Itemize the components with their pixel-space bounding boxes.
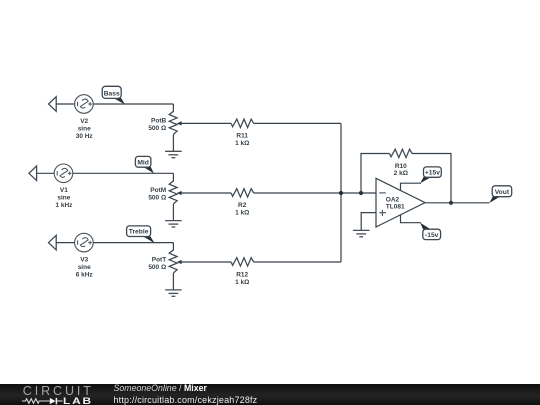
svg-text:Vout: Vout — [495, 189, 510, 196]
node (output junction) — [449, 201, 453, 205]
svg-text:+15v: +15v — [425, 170, 440, 177]
net flag -15v — [420, 223, 440, 240]
wire — [93, 103, 173, 105]
wire (V- stub) — [401, 215, 422, 223]
net flag Mid — [135, 156, 154, 173]
net flag Treble — [127, 226, 155, 243]
svg-text:V1: V1 — [60, 187, 68, 194]
svg-text:R2: R2 — [238, 202, 247, 209]
wire — [172, 104, 174, 111]
voltage source V1 — [54, 164, 73, 209]
wire (feedback right) — [412, 154, 451, 203]
ground — [165, 221, 182, 227]
wire (feedback left) — [361, 154, 390, 194]
footer bar — [0, 384, 540, 405]
wire (V+ stub) — [401, 183, 422, 190]
svg-text:2 kΩ: 2 kΩ — [394, 170, 408, 177]
node (bus / inverting input junction) — [339, 191, 343, 195]
svg-text:PotB: PotB — [151, 118, 166, 125]
potentiometer PotT — [148, 249, 181, 290]
net flag +15v — [420, 167, 441, 183]
logo resistor + diode glyph — [22, 396, 63, 405]
svg-text:V3: V3 — [80, 257, 88, 264]
wire (summing bus) — [340, 123, 342, 262]
wire — [181, 261, 231, 263]
potentiometer PotM — [148, 180, 181, 221]
wire — [181, 192, 231, 194]
svg-text:-15v: -15v — [425, 232, 439, 239]
svg-text:1 kΩ: 1 kΩ — [235, 209, 249, 216]
svg-text:sine: sine — [57, 195, 70, 202]
svg-text:OA2: OA2 — [386, 196, 400, 203]
svg-text:500 Ω: 500 Ω — [148, 264, 166, 271]
wire — [172, 243, 174, 250]
voltage source V2 — [75, 95, 94, 140]
svg-text:500 Ω: 500 Ω — [148, 195, 166, 202]
wire — [172, 173, 174, 181]
url — [114, 395, 258, 405]
logo LAB text — [63, 397, 93, 405]
potentiometer PotB — [148, 111, 181, 152]
wire — [37, 172, 55, 174]
svg-text:Treble: Treble — [129, 229, 149, 236]
svg-text:30 Hz: 30 Hz — [76, 133, 94, 140]
author / title — [114, 383, 207, 393]
voltage source V3 — [75, 233, 94, 278]
svg-text:sine: sine — [78, 264, 91, 271]
svg-text:6 kHz: 6 kHz — [76, 271, 94, 278]
wire — [254, 261, 341, 263]
svg-text:R10: R10 — [395, 163, 407, 170]
svg-text:V2: V2 — [80, 118, 88, 125]
net flag Bass — [102, 86, 125, 104]
net flag Vout — [490, 186, 512, 203]
port (Bass input) — [49, 97, 57, 112]
svg-text:500 Ω: 500 Ω — [148, 125, 166, 132]
wire (output) — [425, 202, 489, 204]
CircuitLab logo wordmark — [23, 385, 94, 398]
node (feedback tap junction) — [359, 191, 363, 195]
svg-text:R12: R12 — [236, 272, 248, 279]
svg-text:PotM: PotM — [150, 187, 166, 194]
port (Mid input) — [29, 166, 37, 181]
resistor R2 — [231, 189, 254, 217]
svg-text:Mid: Mid — [137, 159, 149, 166]
ground — [165, 290, 182, 296]
svg-text:1 kΩ: 1 kΩ — [235, 279, 249, 286]
wire (non-inverting input) — [361, 213, 376, 231]
wire — [56, 242, 74, 244]
wire — [73, 172, 174, 174]
wire — [254, 192, 376, 194]
port (Treble input) — [49, 235, 57, 250]
resistor R10 — [390, 149, 413, 177]
op-amp OA2 TL081 — [376, 178, 425, 227]
svg-text:PotT: PotT — [152, 257, 166, 264]
svg-text:R11: R11 — [236, 133, 248, 140]
wire — [181, 122, 231, 124]
svg-text:sine: sine — [78, 126, 91, 133]
svg-text:1 kΩ: 1 kΩ — [235, 140, 249, 147]
svg-text:TL081: TL081 — [386, 204, 405, 211]
svg-text:1 kHz: 1 kHz — [55, 202, 73, 209]
wire — [254, 122, 341, 124]
ground — [165, 151, 182, 157]
wire — [93, 242, 173, 244]
resistor R11 — [231, 119, 254, 147]
wire — [56, 103, 74, 105]
resistor R12 — [231, 258, 254, 286]
svg-text:Bass: Bass — [104, 91, 120, 98]
ground — [353, 230, 370, 236]
